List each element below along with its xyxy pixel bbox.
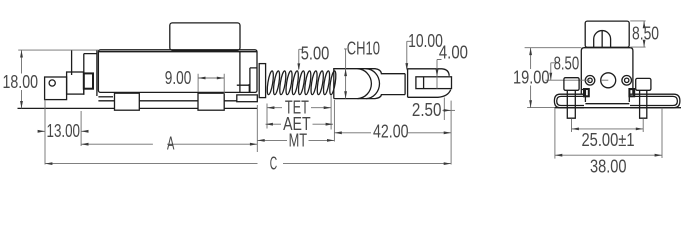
dim 19.00 line xyxy=(530,48,532,108)
rail line 2 xyxy=(98,96,113,98)
dim 8.50 left xyxy=(551,63,556,80)
screw left shank xyxy=(567,90,575,118)
cap arch xyxy=(594,31,611,48)
svg-text:CH10: CH10 xyxy=(347,38,380,58)
ext line body right xyxy=(256,105,258,152)
svg-text:5.00: 5.00 xyxy=(301,44,330,64)
wiper block lines xyxy=(237,84,250,92)
dim 18.00 vertical line xyxy=(21,50,23,108)
dim 9.00 ticks xyxy=(198,74,224,94)
dim 38.00 xyxy=(555,154,662,156)
spring flange washer xyxy=(259,64,265,98)
ext 38.00 right xyxy=(661,108,663,158)
ext line 13.00 right / A left xyxy=(80,111,82,146)
rail tab 1 xyxy=(115,93,140,110)
internal wall under cap right edge xyxy=(239,52,241,93)
spring coils xyxy=(266,71,337,95)
ext bottom 19.00 xyxy=(527,107,554,109)
ext 38.00 left xyxy=(554,108,556,159)
leader 10.00 xyxy=(407,41,412,69)
mounting lug square xyxy=(45,77,67,100)
svg-text:13.00: 13.00 xyxy=(47,121,81,141)
svg-text:8.50: 8.50 xyxy=(554,53,580,73)
screw right head xyxy=(636,78,651,90)
bracket wing right xyxy=(630,94,680,108)
svg-text:MT: MT xyxy=(289,130,308,150)
cylinder body xyxy=(334,69,405,99)
svg-text:42.00: 42.00 xyxy=(373,121,409,141)
slider end block xyxy=(237,95,257,102)
leader CH10 xyxy=(344,49,347,99)
dim AET xyxy=(266,123,334,125)
dim C line xyxy=(45,163,451,165)
dim 2.50 xyxy=(443,109,456,111)
svg-text:9.00: 9.00 xyxy=(165,68,192,88)
ext line cylinder start xyxy=(333,100,335,142)
ext line fork right xyxy=(450,101,452,165)
screw right shank xyxy=(640,90,647,118)
dim TET xyxy=(267,107,331,109)
ext line flange right xyxy=(266,104,268,129)
dim MT xyxy=(257,139,334,141)
lug hole circle xyxy=(49,80,55,86)
svg-text:25.00±1: 25.00±1 xyxy=(582,130,635,150)
left end plate lines xyxy=(72,50,97,96)
clip hook right xyxy=(629,89,634,96)
rail bottom / extension line xyxy=(18,107,258,109)
ext top for 18.00 xyxy=(18,49,98,51)
screw hole ring left xyxy=(585,76,595,86)
big center hole xyxy=(601,73,616,88)
screw hole ring right xyxy=(622,76,632,86)
svg-text:4.00: 4.00 xyxy=(439,42,468,62)
svg-text:19.00: 19.00 xyxy=(513,68,550,88)
dim 13.00 xyxy=(39,130,88,132)
dim 8.50 right ticks xyxy=(630,21,645,47)
body inner right step xyxy=(250,68,257,93)
rail rod thick xyxy=(98,100,255,102)
center line to hole xyxy=(546,79,609,81)
leader 4.00 xyxy=(437,60,442,89)
svg-text:8.50: 8.50 xyxy=(632,24,659,44)
svg-text:2.50: 2.50 xyxy=(412,100,442,120)
dim 42.00 xyxy=(334,132,451,134)
dim 25.00±1 xyxy=(572,119,644,133)
dim A line xyxy=(81,143,257,145)
bracket wing right inner xyxy=(630,96,677,105)
arch center line xyxy=(601,31,603,48)
svg-text:18.00: 18.00 xyxy=(3,72,39,92)
fork end block xyxy=(408,69,451,98)
svg-text:10.00: 10.00 xyxy=(408,31,443,51)
leader 5.00 xyxy=(299,49,304,69)
neck block xyxy=(67,72,84,94)
cylinder dome arcs xyxy=(358,69,380,99)
shaft end line xyxy=(404,74,406,95)
end cap xyxy=(585,21,629,47)
slot divider xyxy=(423,77,425,89)
end body outline xyxy=(581,48,633,102)
svg-text:A: A xyxy=(167,134,174,154)
fork slot tab xyxy=(416,77,452,89)
cap on top xyxy=(170,23,240,50)
ext line spring end xyxy=(330,95,332,130)
main body xyxy=(98,50,257,93)
seat line xyxy=(554,107,681,109)
svg-text:38.00: 38.00 xyxy=(590,157,627,177)
ext top 19.00 xyxy=(525,47,582,49)
ext line slot right xyxy=(443,98,445,121)
bracket wing left xyxy=(554,94,584,108)
body bottom bar xyxy=(585,103,629,105)
bracket wing left inner xyxy=(557,96,584,105)
ext line lug left xyxy=(44,100,46,165)
clamp small block xyxy=(84,73,93,88)
body inner top line xyxy=(98,51,257,53)
clip hook left xyxy=(584,89,589,96)
svg-text:C: C xyxy=(270,153,277,173)
screw left head xyxy=(564,78,579,91)
rail tab 2 xyxy=(198,93,224,110)
